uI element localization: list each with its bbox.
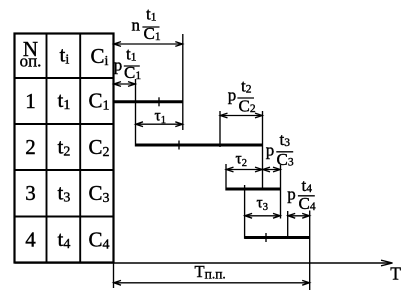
dimension tau3 <box>245 213 281 218</box>
extension line V8 p.t4/C4 left <box>287 211 289 239</box>
table row divider 2 <box>15 169 114 171</box>
dimension p.t2/C2 <box>220 113 263 118</box>
row 1: 1 t1 C1 <box>25 88 109 114</box>
extension line V7 start of bar 4 <box>244 185 246 239</box>
svg-text:p: p <box>266 141 275 160</box>
svg-text:оп.: оп. <box>20 51 42 70</box>
operation bar 1 <box>114 100 183 103</box>
extension line V3 p.t2/C2 left <box>219 111 221 147</box>
table outer border <box>15 34 114 263</box>
svg-text:1: 1 <box>25 89 36 113</box>
dimension p.t3/C3 <box>263 167 281 172</box>
row 2: 2 t2 C2 <box>25 135 109 161</box>
svg-text:Т: Т <box>390 263 401 283</box>
dimension tau1 <box>136 122 183 127</box>
operation bar 2 <box>136 144 263 147</box>
bar 4 tick <box>265 233 267 242</box>
operation bar 4 <box>245 236 310 239</box>
row 3: 3 t3 C3 <box>25 181 109 207</box>
svg-text:2: 2 <box>25 135 36 159</box>
row 4: 4 t4 C4 <box>25 227 109 253</box>
axis arrowhead <box>381 260 393 266</box>
table row divider 3 <box>15 216 114 218</box>
bar 1 tick <box>158 97 160 106</box>
svg-text:p: p <box>114 55 123 74</box>
dimension p.t1/C1 <box>114 82 136 87</box>
dimension n.t1/C1 <box>114 42 183 47</box>
extension line below table (Tpp left) <box>113 263 115 289</box>
svg-text:3: 3 <box>25 181 36 205</box>
label p t3/C3 <box>266 130 294 169</box>
header cell N op. <box>20 37 42 70</box>
dimension p.t4/C4 <box>288 213 310 218</box>
table row divider 1 <box>15 123 114 125</box>
table row divider header <box>15 77 114 79</box>
table column divider 2 <box>79 34 81 263</box>
extension line V5 start of bar 3 <box>225 164 227 191</box>
dimension Tpp <box>114 280 310 285</box>
time axis T <box>15 262 392 264</box>
extension line V4 end of bar 2 <box>262 111 264 191</box>
bar 2 tick <box>178 141 180 150</box>
extension line V2 end of bar 1 <box>182 34 184 130</box>
label p t2/C2 <box>228 77 256 116</box>
extension line V6 end of bar 3 <box>280 165 282 219</box>
dimension tau2 <box>226 167 263 172</box>
label n t1/C1 <box>132 5 161 44</box>
svg-text:n: n <box>132 16 141 35</box>
extension line V9 end of bar 4 <box>309 211 311 291</box>
svg-text:p: p <box>228 85 237 104</box>
operation bar 3 <box>226 188 281 191</box>
label p t4/C4 <box>287 176 316 213</box>
svg-text:p: p <box>287 184 296 203</box>
label p t1/C1 <box>114 45 142 83</box>
svg-text:4: 4 <box>25 228 36 252</box>
table column divider 1 <box>46 34 48 263</box>
extension line V1 start of bar 2 <box>135 79 137 147</box>
